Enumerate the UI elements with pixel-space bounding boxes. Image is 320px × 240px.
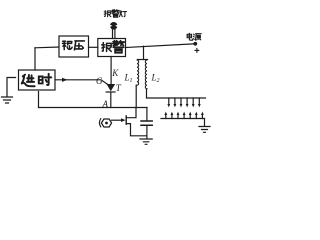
svg-text:L1: L1: [124, 73, 133, 85]
svg-text:A: A: [102, 99, 109, 109]
svg-text:T: T: [116, 83, 122, 93]
svg-text:L2: L2: [151, 73, 160, 85]
svg-text:G: G: [96, 76, 103, 86]
svg-text:K: K: [111, 68, 119, 78]
